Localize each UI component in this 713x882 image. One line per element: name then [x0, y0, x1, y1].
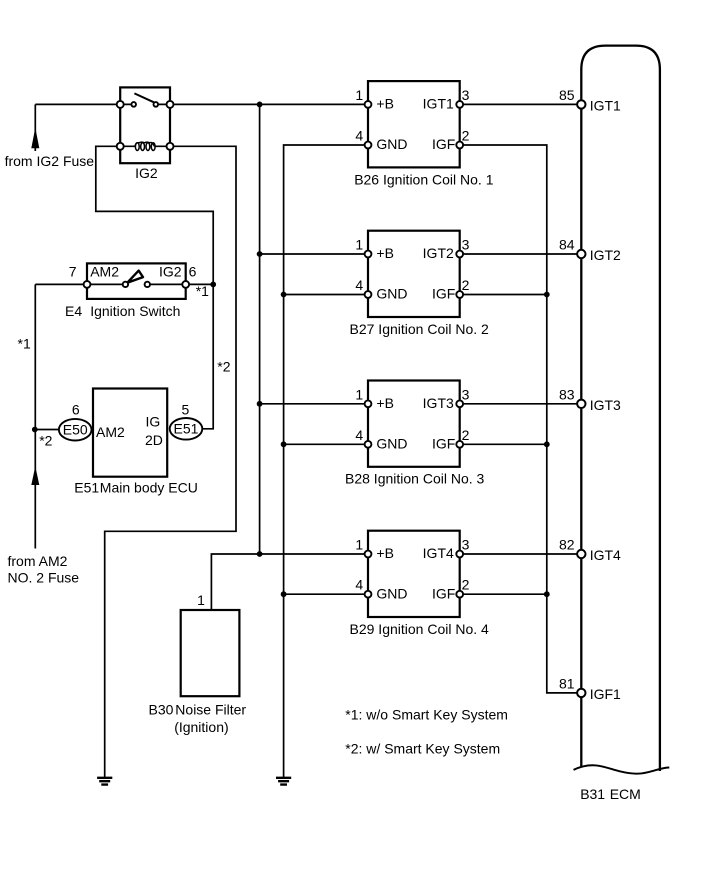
relay switch contact (right) — [154, 102, 159, 107]
ECM pin 84 — [577, 250, 585, 258]
node: GND bus junction row 4 — [281, 591, 287, 597]
svg-text:3: 3 — [462, 537, 470, 553]
wire: B28 pin 2 to IGF bus — [460, 443, 547, 445]
svg-text:B26 Ignition Coil No. 1: B26 Ignition Coil No. 1 — [354, 171, 494, 187]
wire: IGT2 to ECM pin 84 — [460, 253, 581, 255]
svg-text:NO. 2 Fuse: NO. 2 Fuse — [8, 570, 80, 586]
E4 terminal pin 6 — [182, 281, 189, 288]
wire: +B bus vertical — [259, 104, 261, 554]
relay switch blade — [134, 93, 154, 102]
svg-text:from IG2 Fuse: from IG2 Fuse — [5, 153, 95, 169]
svg-text:GND: GND — [376, 435, 407, 451]
svg-text:4: 4 — [355, 128, 363, 144]
svg-text:3: 3 — [462, 237, 470, 253]
ECM torn-edge wave — [574, 765, 670, 773]
B26 pin 2 (IGF) — [456, 142, 463, 149]
wire: GND bus from B26 pin 4 down to ground — [284, 145, 368, 777]
wire: +B bus to B28 pin 1 — [260, 403, 368, 405]
svg-text:1: 1 — [355, 237, 363, 253]
node: IGF bus junction row 4 — [544, 591, 550, 597]
svg-text:IGT1: IGT1 — [590, 97, 621, 113]
B28 pin 1 (+B) — [365, 400, 372, 407]
relay terminal (coil right) — [167, 143, 174, 150]
wire: E4 inner contact leads — [87, 283, 186, 285]
svg-text:IGT2: IGT2 — [590, 247, 621, 263]
svg-text:GND: GND — [376, 136, 407, 152]
wire: IG2 fuse feed to relay pin — [35, 103, 120, 105]
svg-text:IGT3: IGT3 — [590, 397, 621, 413]
arrow head: from IG2 Fuse — [31, 128, 39, 149]
noise filter B30 box — [181, 610, 240, 696]
svg-text:7: 7 — [69, 263, 77, 279]
svg-text:Ignition Switch: Ignition Switch — [90, 303, 180, 319]
wire: junction to E50 connector — [35, 429, 60, 431]
svg-text:*2: *2 — [39, 432, 52, 448]
wire: B30 pin 1 up to +B bus and B29 +B pin 1 — [211, 554, 368, 610]
svg-text:1: 1 — [355, 87, 363, 103]
svg-text:IGF1: IGF1 — [590, 686, 621, 702]
ground symbol (left) — [97, 778, 112, 785]
wire: relay coil left terminal to E4 pin 6 node, down to E51 pin 5 — [96, 146, 213, 429]
svg-text:*2: *2 — [217, 358, 230, 374]
svg-text:1: 1 — [355, 537, 363, 553]
B29 pin 1 (+B) — [365, 551, 372, 558]
node: +B bus junction on top wire — [257, 102, 263, 108]
B28 pin 2 (IGF) — [456, 441, 463, 448]
wire: E4 pin 6 to *1 node — [186, 283, 214, 285]
svg-text:1: 1 — [197, 592, 205, 608]
svg-text:*1: w/o Smart Key System: *1: w/o Smart Key System — [345, 707, 508, 723]
ignition coil B27 box — [368, 231, 460, 317]
B29 pin 3 (IGT4) — [456, 551, 463, 558]
svg-text:2: 2 — [462, 427, 470, 443]
connector oval E51 — [170, 418, 203, 440]
svg-text:AM2: AM2 — [90, 263, 119, 279]
ECM pin 81 — [577, 689, 585, 697]
B26 pin 4 (GND) — [365, 142, 372, 149]
svg-text:+B: +B — [376, 545, 394, 561]
svg-text:*2: w/ Smart Key System: *2: w/ Smart Key System — [345, 741, 500, 757]
svg-text:84: 84 — [559, 237, 575, 253]
svg-text:B27 Ignition Coil No. 2: B27 Ignition Coil No. 2 — [350, 321, 490, 337]
svg-text:4: 4 — [355, 277, 363, 293]
ignition coil B28 box — [368, 381, 460, 467]
svg-text:2: 2 — [462, 128, 470, 144]
node: IGF bus junction row 2 — [544, 292, 550, 298]
svg-text:B30: B30 — [149, 701, 174, 717]
svg-text:(Ignition): (Ignition) — [174, 719, 228, 735]
wire: drop to from-IG2-Fuse arrow — [34, 104, 36, 151]
svg-text:+B: +B — [376, 245, 394, 261]
svg-text:3: 3 — [462, 87, 470, 103]
svg-text:IGT1: IGT1 — [423, 96, 454, 112]
relay IG2 box — [120, 87, 170, 163]
ECM pin 85 — [577, 100, 585, 108]
svg-text:1: 1 — [355, 386, 363, 402]
svg-text:5: 5 — [182, 402, 190, 418]
B28 pin 3 (IGT3) — [456, 400, 463, 407]
ECM pin 83 — [577, 400, 585, 408]
wire: relay coil right terminal to left ground — [105, 146, 236, 777]
svg-text:E51: E51 — [174, 421, 199, 437]
svg-text:from AM2: from AM2 — [8, 553, 68, 569]
ignition coil B26 box — [368, 81, 460, 167]
svg-text:ECM: ECM — [610, 786, 641, 802]
node: +B bus / noise filter junction — [257, 551, 263, 557]
svg-text:B28 Ignition Coil No. 3: B28 Ignition Coil No. 3 — [345, 471, 485, 487]
wire: IGT3 to ECM pin 83 — [460, 403, 581, 405]
wire: IGT4 to ECM pin 82 — [460, 553, 581, 555]
svg-text:E4: E4 — [65, 303, 82, 319]
svg-text:*1: *1 — [196, 283, 209, 299]
node: E50 junction on AM2 wire — [32, 427, 38, 433]
svg-text:E50: E50 — [63, 421, 88, 437]
svg-text:IGF: IGF — [432, 286, 455, 302]
svg-text:IGF: IGF — [432, 585, 455, 601]
main body ECU E51 box — [93, 389, 167, 477]
relay terminal (switch in) — [117, 101, 124, 108]
node: GND bus junction row 3 — [281, 441, 287, 447]
wire: GND bus to B29 pin 4 — [284, 593, 368, 595]
node: GND bus junction row 2 — [281, 292, 287, 298]
node: junction at E4 pin 6 (*1) — [210, 282, 216, 288]
svg-text:GND: GND — [376, 286, 407, 302]
E4 switch contact (right) — [145, 282, 150, 287]
svg-text:IG2: IG2 — [159, 263, 182, 279]
svg-text:4: 4 — [355, 577, 363, 593]
svg-text:+B: +B — [376, 395, 394, 411]
svg-text:IGF: IGF — [432, 136, 455, 152]
wire: IGT1 to ECM pin 85 — [460, 103, 581, 105]
wire: IGF bus from B26 pin 2 to ECM pin 81 — [460, 145, 581, 693]
svg-text:2: 2 — [462, 577, 470, 593]
relay coil winding L1 — [135, 142, 155, 150]
svg-text:6: 6 — [72, 402, 80, 418]
wire: B27 pin 2 to IGF bus — [460, 294, 547, 296]
svg-text:82: 82 — [559, 537, 575, 553]
B26 pin 3 (IGT1) — [456, 101, 463, 108]
svg-text:6: 6 — [189, 263, 197, 279]
svg-text:B29 Ignition Coil No. 4: B29 Ignition Coil No. 4 — [350, 621, 490, 637]
B27 pin 2 (IGF) — [456, 291, 463, 298]
B29 pin 2 (IGF) — [456, 591, 463, 598]
svg-text:E51: E51 — [74, 480, 99, 496]
ignition coil B29 box — [368, 531, 460, 617]
svg-text:IGT4: IGT4 — [590, 547, 621, 563]
B27 pin 4 (GND) — [365, 291, 372, 298]
svg-text:2: 2 — [462, 277, 470, 293]
ECM pin 82 — [577, 550, 585, 558]
wire: GND bus to B27 pin 4 — [284, 294, 368, 296]
svg-text:83: 83 — [559, 386, 575, 402]
svg-text:IGT3: IGT3 — [423, 395, 454, 411]
svg-text:B31: B31 — [580, 786, 605, 802]
B29 pin 4 (GND) — [365, 591, 372, 598]
E4 switch blade wedge — [127, 271, 143, 283]
relay switch contact (left) — [131, 102, 136, 107]
relay terminal (switch out) — [167, 101, 174, 108]
ground symbol (GND bus) — [276, 778, 291, 785]
wire: B29 pin 2 to IGF bus — [460, 593, 547, 595]
relay terminal (coil left) — [117, 143, 124, 150]
wire: +B bus to B27 pin 1 — [260, 253, 368, 255]
wire: GND bus to B28 pin 4 — [284, 443, 368, 445]
svg-text:2D: 2D — [145, 432, 163, 448]
ignition switch E4 box — [87, 263, 186, 299]
B27 pin 3 (IGT2) — [456, 251, 463, 258]
svg-text:*1: *1 — [18, 335, 31, 351]
E4 terminal pin 7 — [84, 281, 91, 288]
svg-text:Noise Filter: Noise Filter — [175, 701, 246, 717]
node: +B bus junction row 3 — [257, 401, 263, 407]
svg-text:GND: GND — [376, 585, 407, 601]
svg-text:81: 81 — [559, 676, 575, 692]
svg-text:IGF: IGF — [432, 435, 455, 451]
node: +B bus junction row 2 — [257, 251, 263, 257]
wire: relay switch contact leads — [120, 103, 170, 105]
svg-text:Main body ECU: Main body ECU — [100, 480, 198, 496]
ECM B31 outline — [581, 46, 660, 771]
svg-text:AM2: AM2 — [96, 424, 125, 440]
arrow head: from AM2 NO. 2 Fuse — [31, 466, 39, 485]
svg-text:IGT2: IGT2 — [423, 245, 454, 261]
wire: relay coil leads — [120, 145, 170, 147]
svg-text:85: 85 — [559, 87, 575, 103]
wire: E4 pin 7 to AM2 NO.2 fuse feed — [35, 284, 87, 548]
svg-text:IG: IG — [146, 413, 161, 429]
E4 switch contact (left) — [123, 282, 128, 287]
B26 pin 1 (+B) — [365, 101, 372, 108]
node: IGF bus junction row 3 — [544, 441, 550, 447]
svg-text:IG2: IG2 — [135, 165, 158, 181]
B28 pin 4 (GND) — [365, 441, 372, 448]
svg-text:3: 3 — [462, 386, 470, 402]
svg-text:4: 4 — [355, 427, 363, 443]
B27 pin 1 (+B) — [365, 251, 372, 258]
wire: relay switch output to B26 +B pin 1 — [170, 103, 368, 105]
connector oval E50 — [59, 419, 92, 441]
svg-text:+B: +B — [376, 96, 394, 112]
svg-text:IGT4: IGT4 — [423, 545, 454, 561]
